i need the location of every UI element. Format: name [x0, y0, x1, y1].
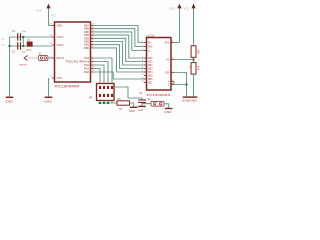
svg-text:VCC: VCC	[36, 8, 42, 12]
node junction header 2	[103, 102, 105, 104]
wire VCC to R1	[193, 9, 195, 46]
node junction VO	[192, 58, 194, 60]
wire R5 to ground	[130, 103, 134, 107]
wire bus RB0	[93, 48, 144, 72]
svg-text:12: 12	[142, 74, 144, 76]
svg-text:JP1: JP1	[89, 97, 94, 100]
svg-text:DB7: DB7	[148, 82, 153, 84]
wire VCC to LCD VDD	[174, 9, 180, 43]
svg-text:DB2: DB2	[148, 65, 153, 67]
capacitor C1	[17, 33, 21, 40]
ground GND7	[189, 97, 197, 103]
switch S2	[151, 101, 164, 106]
supply VCC arrow P1	[36, 4, 51, 13]
svg-text:VO: VO	[166, 59, 170, 61]
IC1 left pin stubs	[52, 26, 55, 79]
resistor R5	[117, 101, 130, 105]
svg-text:10: 10	[142, 67, 144, 69]
switch S1	[24, 56, 48, 61]
svg-text:T0CKI/RA4: T0CKI/RA4	[65, 60, 90, 64]
resistor R1	[191, 46, 196, 58]
IC1 left pin labels	[57, 24, 65, 81]
svg-text:10k: 10k	[197, 50, 200, 55]
svg-text:LCD1: LCD1	[147, 33, 155, 37]
wire R1 to R2	[193, 57, 195, 62]
wire crystal gnd rail	[9, 37, 11, 97]
svg-text:RS: RS	[148, 42, 152, 44]
wire bus RB3	[93, 38, 144, 61]
wire crystal link	[22, 37, 24, 46]
svg-text:GND: GND	[138, 109, 144, 112]
svg-text:OSC1: OSC1	[57, 35, 65, 39]
wire C3 bottom	[142, 103, 151, 106]
svg-text:VSS: VSS	[57, 76, 62, 80]
svg-text:7: 7	[142, 56, 143, 58]
ground GND3	[129, 107, 137, 113]
svg-text:GND: GND	[189, 99, 197, 103]
svg-text:11: 11	[142, 70, 144, 72]
svg-text:DB3: DB3	[148, 68, 153, 70]
wire S1 to MCLR	[48, 57, 52, 59]
svg-text:VCC: VCC	[184, 7, 190, 11]
svg-text:10k: 10k	[197, 66, 200, 71]
svg-text:RB0: RB0	[84, 46, 90, 50]
wire RA0 to header	[93, 69, 100, 84]
ground GND2	[44, 97, 52, 103]
IC2 left pin labels	[148, 42, 153, 84]
svg-text:5: 5	[142, 45, 143, 47]
svg-text:9: 9	[142, 63, 143, 65]
supply VCC arrow P2	[170, 4, 182, 11]
svg-text:VCC: VCC	[170, 7, 176, 11]
capacitor C2	[17, 42, 21, 49]
svg-text:GND: GND	[164, 110, 172, 114]
ground GND1	[5, 97, 13, 103]
IC2 pin numbers	[142, 41, 174, 85]
node junction header 3	[107, 102, 109, 104]
svg-text:PIC16F84AP: PIC16F84AP	[55, 84, 81, 88]
svg-text:MCLR: MCLR	[57, 56, 64, 60]
svg-text:6: 6	[142, 49, 143, 51]
wire bus RB5	[93, 32, 144, 51]
svg-text:8: 8	[142, 60, 143, 62]
IC1 PIC16F84 box	[55, 22, 91, 82]
wire VSS to ground	[48, 78, 50, 97]
svg-text:4: 4	[142, 41, 143, 43]
svg-text:1: 1	[172, 71, 173, 73]
wire bus RB4	[93, 35, 144, 58]
wire RA3 to header	[93, 58, 112, 84]
resistor R2	[191, 63, 196, 75]
svg-text:RA2: RA2	[84, 63, 90, 67]
node junction crystal bottom	[22, 45, 24, 47]
IC1 right pin stubs RB7-RB0	[91, 26, 94, 48]
wire bus RB6	[93, 29, 144, 47]
svg-text:VDD: VDD	[57, 24, 63, 28]
svg-text:13: 13	[142, 77, 144, 79]
svg-text:VDD: VDD	[165, 42, 170, 44]
svg-text:GND: GND	[5, 99, 13, 103]
IC2 left pin stubs	[144, 43, 147, 83]
svg-text:DB0: DB0	[148, 58, 153, 60]
IC2 right pin stubs	[171, 43, 174, 85]
capacitor C3	[138, 99, 146, 103]
wire S2 to ground	[164, 104, 169, 108]
svg-text:2: 2	[172, 41, 173, 43]
wire R2 to ground	[193, 74, 195, 97]
supply VCC arrow P3	[184, 4, 196, 11]
wire bus RB1	[93, 45, 144, 69]
connector JP1 pads	[99, 86, 113, 97]
wire OSC2	[10, 45, 53, 47]
wire LCD VSS to ground	[174, 73, 187, 97]
svg-text:PC1602FRS: PC1602FRS	[147, 93, 171, 97]
ground GND4	[164, 109, 172, 115]
wire header common	[98, 101, 117, 104]
svg-text:RA3: RA3	[84, 56, 90, 60]
svg-text:4MHz: 4MHz	[26, 49, 32, 51]
IC1 right pin labels	[65, 24, 90, 75]
svg-text:VSS: VSS	[165, 72, 170, 74]
ground GND5	[138, 106, 146, 112]
wire OSC1	[10, 36, 53, 38]
node junction header 1	[99, 102, 101, 104]
wire RA1 to header	[93, 65, 104, 84]
IC1 right pin numbers	[92, 24, 95, 72]
IC1 right pin stubs RA	[91, 58, 94, 72]
svg-text:DB6: DB6	[148, 79, 153, 81]
wire bus RB2	[93, 42, 144, 66]
svg-text:GND: GND	[44, 99, 52, 103]
svg-text:GND: GND	[129, 109, 135, 113]
svg-text:16: 16	[172, 83, 174, 85]
node junction crystal top	[22, 36, 24, 38]
svg-text:RA1: RA1	[84, 67, 90, 71]
wire to C3	[114, 87, 142, 100]
wire RA4 to LCD	[93, 72, 144, 79]
svg-text:15: 15	[172, 80, 174, 82]
wire bus RB7	[93, 26, 144, 43]
wire LCD backlight	[174, 82, 187, 85]
connector JP1 box	[97, 84, 115, 101]
svg-text:14: 14	[142, 81, 144, 83]
svg-text:DB4: DB4	[148, 72, 153, 74]
svg-text:3: 3	[172, 58, 173, 60]
ground GND6	[182, 97, 191, 103]
wire VCC to IC1 VDD	[49, 9, 53, 26]
svg-text:DB5: DB5	[148, 75, 153, 77]
svg-text:VCC: VCC	[51, 14, 57, 18]
node junction backlight	[185, 83, 187, 85]
IC2 right pin labels	[165, 42, 170, 86]
svg-text:DB1: DB1	[148, 61, 153, 63]
svg-text:RA0: RA0	[84, 70, 90, 74]
IC2 LCD box	[147, 38, 172, 91]
svg-text:OSC2: OSC2	[57, 43, 65, 47]
crystal Q1	[27, 42, 33, 47]
wire VO	[174, 59, 194, 61]
node junction at gnd rail	[8, 45, 10, 47]
IC1 left pin numbers	[50, 24, 53, 78]
wire RA2 to header	[93, 62, 108, 84]
svg-text:RESET: RESET	[20, 65, 28, 67]
